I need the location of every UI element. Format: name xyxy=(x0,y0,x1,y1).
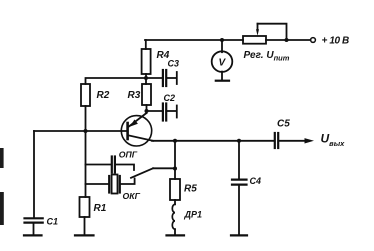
svg-text:C4: C4 xyxy=(250,176,262,186)
wire R5 to choke xyxy=(174,200,176,204)
transistor VT1 upper lead (emitter) xyxy=(129,111,147,127)
crystal ОКГ xyxy=(109,176,120,193)
ground under C4 xyxy=(231,234,247,236)
svg-text:ОКГ: ОКГ xyxy=(123,191,141,201)
wire C3 to terminal xyxy=(167,77,176,79)
node voltmeter tap xyxy=(220,38,224,42)
svg-text:R3: R3 xyxy=(128,90,141,101)
svg-text:C3: C3 xyxy=(168,59,180,69)
resistor R4 xyxy=(142,49,151,74)
node base rail x R2 column xyxy=(84,129,88,133)
wire R1 to ground xyxy=(84,217,86,235)
capacitor C2 xyxy=(163,104,166,121)
rheostat wiper arrow stem xyxy=(257,24,259,30)
wire C2 to terminal xyxy=(167,110,176,112)
resistor R5 xyxy=(170,179,180,200)
rheostat Рег.Uпит body xyxy=(243,36,266,44)
transistor VT1 lower lead (collector) xyxy=(129,136,153,141)
voltmeter PV1 tap wire xyxy=(221,40,223,52)
wire left column down to C1 xyxy=(33,131,35,218)
svg-text:ОПГ: ОПГ xyxy=(119,150,138,160)
capacitor ОПГ branch wire xyxy=(86,164,111,166)
resistor R3 xyxy=(142,84,151,105)
svg-text:R5: R5 xyxy=(184,184,197,195)
resistor R1 xyxy=(80,197,90,217)
node switch common x R5 column xyxy=(173,167,177,171)
wire choke to ground xyxy=(174,229,176,234)
wire node to C3 xyxy=(146,77,162,79)
node R3/C2/transistor junction xyxy=(145,109,149,113)
svg-text:R2: R2 xyxy=(97,90,110,101)
ground under R1 xyxy=(75,234,94,236)
wire C4 drop xyxy=(238,141,240,179)
wire corner to R4 top xyxy=(145,40,147,49)
node output rail x R5 column xyxy=(173,139,177,143)
rheostat wiper arrow head xyxy=(256,29,259,36)
resistor R2 xyxy=(81,84,90,106)
wire R5 column xyxy=(174,141,176,179)
wire switch common xyxy=(153,167,175,169)
capacitor C5 xyxy=(275,133,278,148)
svg-text:R1: R1 xyxy=(94,203,107,214)
voltmeter PV1 xyxy=(212,51,233,72)
terminal bar after C3 xyxy=(176,72,178,84)
capacitor C4 xyxy=(232,180,247,185)
capacitor C3 xyxy=(163,70,166,86)
node R4/R3/C3 junction xyxy=(144,76,148,80)
svg-text:+ 10 В: + 10 В xyxy=(322,36,350,47)
rheostat wiper strap xyxy=(258,24,287,40)
terminal bar after C2 xyxy=(176,106,178,118)
wire node to C2 xyxy=(147,110,162,112)
wire ОКГ to switch contact xyxy=(121,179,135,185)
transistor VT1 circle xyxy=(121,116,151,146)
wire R2 bottom down through base rail to R1 top xyxy=(85,106,87,197)
switch S1 blade xyxy=(131,168,153,178)
svg-text:C1: C1 xyxy=(47,217,59,227)
wire top supply rail xyxy=(145,39,311,41)
svg-text:C2: C2 xyxy=(164,93,176,103)
wire C5 to output arrow xyxy=(279,140,305,142)
wire base rail horizontal xyxy=(34,130,126,132)
node wiper strap x supply rail xyxy=(285,38,289,42)
ground under voltmeter xyxy=(216,80,229,82)
crystal ОКГ branch wire xyxy=(86,183,109,185)
wire R4 bottom to node xyxy=(145,74,147,84)
wire voltmeter to ground xyxy=(221,72,223,80)
choke Др1 xyxy=(172,204,175,229)
svg-text:C5: C5 xyxy=(277,119,290,130)
capacitor ОПГ xyxy=(112,157,115,173)
scan artifact bar 2 left edge xyxy=(0,192,4,225)
output arrow head xyxy=(305,138,315,143)
ground under C1 xyxy=(24,234,42,236)
wire output rail xyxy=(152,140,274,142)
wire C1 to ground xyxy=(33,224,35,235)
transistor VT1 base bar xyxy=(126,123,129,139)
svg-text:ДР1: ДР1 xyxy=(184,210,203,220)
wire ОПГ to switch contact xyxy=(116,165,134,171)
wire C4 to ground xyxy=(238,186,240,235)
terminal +10V circle xyxy=(311,38,316,43)
transistor VT1 emitter arrow xyxy=(130,120,138,127)
wire R3 bottom to node xyxy=(146,105,148,113)
wire node to R2 top xyxy=(86,78,147,84)
svg-text:V: V xyxy=(219,58,227,69)
node output rail x C4 xyxy=(237,139,241,143)
ground under choke xyxy=(167,234,185,236)
capacitor C1 xyxy=(25,218,43,222)
svg-text:Uвых: Uвых xyxy=(321,132,346,149)
scan artifact bar 1 left edge xyxy=(0,148,4,168)
svg-text:Рег. Uпит: Рег. Uпит xyxy=(244,50,290,63)
